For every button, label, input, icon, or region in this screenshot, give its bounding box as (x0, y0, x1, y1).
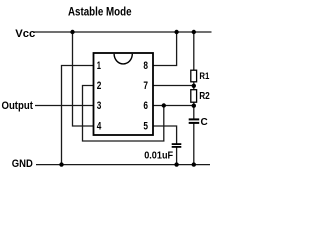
resistor R1 (191, 70, 210, 82)
resistor R2 (191, 90, 210, 103)
junction pin6 / R2-C column (192, 104, 196, 108)
wire bypass capacitor bottom to GND (176, 148, 178, 165)
svg-text:GND: GND (12, 158, 33, 170)
svg-text:2: 2 (97, 80, 102, 92)
svg-text:Vcc: Vcc (15, 28, 35, 40)
svg-text:Astable Mode: Astable Mode (68, 5, 132, 19)
capacitor C (189, 117, 208, 128)
svg-text:Output: Output (2, 100, 34, 112)
junction Vcc / pin4 drop (70, 30, 74, 34)
wire GND rail (36, 164, 210, 166)
wire pin 6 to R2-C junction (153, 105, 194, 107)
junction Vcc / pin8 riser (174, 30, 178, 34)
wire capacitor C bottom to GND (193, 124, 195, 165)
wire Vcc to R1 top (193, 32, 195, 71)
wire R2 bottom to capacitor C top (193, 102, 195, 119)
junction GND / capacitor C (192, 162, 196, 166)
wire R1 bottom to R2 top (193, 82, 195, 90)
wire Vcc rail (34, 31, 212, 33)
wire pin 2 to pin 6 loop (83, 86, 164, 142)
capacitor 0.01uF bypass (144, 144, 181, 162)
svg-text:8: 8 (143, 60, 148, 72)
wire pin 5 to bypass capacitor (153, 126, 177, 144)
svg-text:5: 5 (143, 121, 148, 133)
svg-text:0.01uF: 0.01uF (144, 151, 173, 162)
wire pin 8 to Vcc (153, 32, 177, 66)
wire pin 1 to GND (62, 66, 94, 165)
junction pin6 / pin2 loop riser (162, 103, 166, 107)
svg-text:6: 6 (143, 100, 148, 112)
wire pin 7 to R1-R2 junction (153, 85, 194, 87)
svg-text:1: 1 (97, 60, 101, 72)
svg-text:7: 7 (143, 80, 148, 92)
svg-text:R1: R1 (199, 71, 210, 82)
junction GND / bypass cap (174, 162, 178, 166)
svg-text:3: 3 (97, 100, 102, 112)
junction R1-R2 / pin7 (192, 84, 196, 88)
op-amp U1 555 timer IC body (94, 53, 154, 135)
svg-text:R2: R2 (199, 91, 210, 102)
junction Vcc / R1 column (192, 30, 196, 34)
svg-text:C: C (201, 117, 208, 128)
wire Vcc to pin 4 reset (73, 32, 94, 126)
svg-text:4: 4 (97, 121, 102, 133)
junction GND / pin1 drop (59, 162, 63, 166)
wire output to pin 3 (35, 105, 94, 107)
